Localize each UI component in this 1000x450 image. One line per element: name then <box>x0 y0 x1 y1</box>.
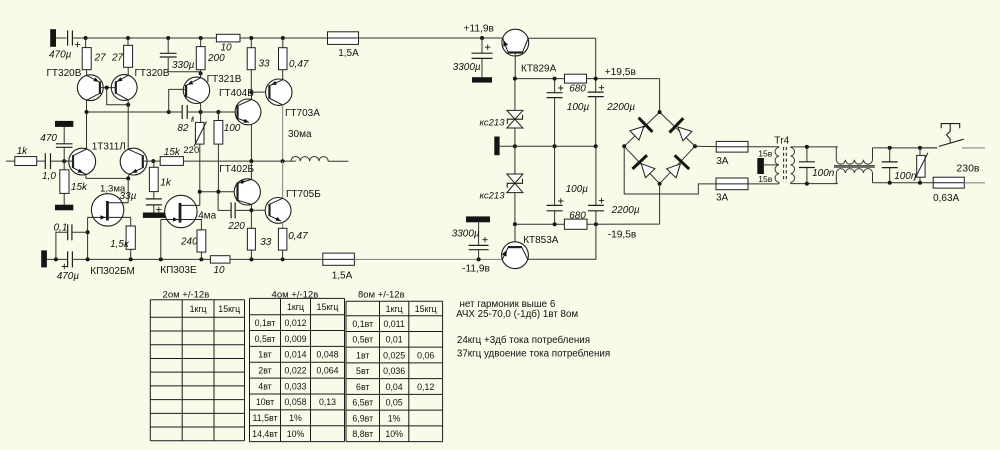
svg-text:680: 680 <box>569 210 586 221</box>
bridge diamond wires <box>624 112 695 184</box>
svg-text:+19,5в: +19,5в <box>605 67 636 78</box>
node KP303E gate <box>159 257 163 261</box>
svg-text:0,01: 0,01 <box>386 335 403 345</box>
svg-text:0,064: 0,064 <box>316 366 338 376</box>
svg-text:ГТ703А: ГТ703А <box>285 108 320 119</box>
capacitor 100u bottom <box>554 211 556 225</box>
node 2200u top / bridge <box>594 77 598 81</box>
fuse 3A bottom <box>716 178 748 190</box>
svg-text:0,05: 0,05 <box>386 398 403 408</box>
capacitor 100u top <box>554 79 556 93</box>
svg-text:0,025: 0,025 <box>383 350 405 360</box>
wire zener chain upper <box>514 79 516 111</box>
wire R1,5k to bottom rail <box>130 249 132 259</box>
svg-text:1,5к: 1,5к <box>110 239 130 250</box>
node feedback/base 1T311L2 <box>151 159 155 163</box>
wire GT703A collector down to output node <box>282 105 284 161</box>
wire bridge right to fuse 3A top <box>695 145 716 147</box>
svg-text:220: 220 <box>227 221 245 232</box>
node varistor top <box>918 146 922 150</box>
svg-text:24кгц +3дб тока потребления: 24кгц +3дб тока потребления <box>457 335 590 346</box>
wire KP303E source to R240 <box>200 220 202 230</box>
capacitor 3300u bottom <box>478 222 480 245</box>
resistor 27 (right) <box>127 38 129 45</box>
wire GT321V base to rail2 <box>169 89 186 112</box>
svg-text:0,06: 0,06 <box>417 350 434 360</box>
svg-text:0,13: 0,13 <box>319 397 336 407</box>
wire KT829A collector to +19,5v <box>528 37 596 39</box>
wire 470u to rail <box>72 258 322 260</box>
svg-text:1вт: 1вт <box>258 350 271 360</box>
svg-text:33: 33 <box>260 237 272 248</box>
svg-text:10: 10 <box>220 43 232 54</box>
diode bridge bottom-right <box>667 164 681 178</box>
node rail2 GT321V collector <box>199 110 203 114</box>
wire base-base GT320V <box>100 87 116 89</box>
wire to switch <box>920 147 937 149</box>
svg-text:3300µ: 3300µ <box>453 62 481 73</box>
resistor 33 bottom <box>247 228 255 250</box>
fuse 1,5A bottom <box>323 253 355 265</box>
node emitter GT321V <box>199 71 203 75</box>
svg-text:8,8вт: 8,8вт <box>352 429 373 439</box>
svg-text:1,5А: 1,5А <box>332 270 353 281</box>
wire R240 to rail <box>200 252 202 259</box>
wire R100 branch down to C220 <box>217 192 219 211</box>
node output / GT402B emitter line <box>249 159 253 163</box>
wire rail2 left segment <box>87 111 183 113</box>
svg-text:ГТ402Б: ГТ402Б <box>219 164 254 175</box>
wire 330u bottom to emitter node <box>168 57 200 73</box>
svg-text:0,47: 0,47 <box>289 59 309 70</box>
wire +19,5v to bridge top <box>659 79 661 113</box>
capacitor 470u input (electrolytic) <box>67 30 69 45</box>
mains plug symbol <box>941 124 960 143</box>
svg-text:2200µ: 2200µ <box>606 102 635 113</box>
svg-text:14,4вт: 14,4вт <box>252 429 278 439</box>
wire base line GT402B <box>200 191 238 193</box>
svg-text:330µ: 330µ <box>172 60 195 71</box>
resistor 100 <box>217 112 219 121</box>
resistor 27 (left) <box>85 38 87 48</box>
capacitor 82 in rail2 <box>181 105 183 119</box>
svg-text:15кгц: 15кгц <box>415 304 437 314</box>
wire to GT705B base <box>251 209 269 211</box>
node 100u caps <box>553 144 557 148</box>
svg-text:15k: 15k <box>164 147 181 158</box>
node 100n#2 bottom <box>888 181 892 185</box>
node R0,47 bottom <box>281 257 285 261</box>
wire node to GT703A base <box>251 91 269 93</box>
wire GT320V2 collector down to 1T311L2 collector <box>127 100 129 149</box>
svg-text:0,011: 0,011 <box>383 319 404 329</box>
node varistor bottom <box>918 181 922 185</box>
svg-text:10%: 10% <box>385 429 403 439</box>
svg-text:3А: 3А <box>716 156 729 167</box>
wire primary top to 100n <box>791 146 838 148</box>
node R33 bottom <box>249 257 253 261</box>
wire switch to 230v <box>962 147 985 149</box>
wire 15k to output node <box>183 160 296 162</box>
svg-text:+11,9в: +11,9в <box>464 24 494 35</box>
wire choke to 100n#2 top <box>873 147 938 149</box>
svg-text:100µ: 100µ <box>566 184 589 195</box>
node 100u top <box>553 77 557 81</box>
node bridge top <box>658 110 662 114</box>
svg-text:15кгц: 15кгц <box>218 304 240 314</box>
svg-text:10: 10 <box>214 265 226 276</box>
wire base node down to collector T2 <box>107 88 129 105</box>
svg-text:100µ: 100µ <box>567 102 590 113</box>
svg-text:-19,5в: -19,5в <box>608 229 637 240</box>
svg-text:1кгц: 1кгц <box>386 304 403 314</box>
node rail2 R100 <box>216 110 220 114</box>
resistor 15k left vertical <box>60 170 69 194</box>
svg-text:470: 470 <box>40 133 57 144</box>
wire choke to 100n#2 bottom <box>873 182 934 184</box>
node zener mid <box>513 144 517 148</box>
wire zener mid section <box>514 128 516 174</box>
svg-text:кс213: кс213 <box>480 190 506 201</box>
svg-text:1,0: 1,0 <box>42 171 56 182</box>
wire KP303E gate down <box>160 220 162 260</box>
svg-text:37кгц удвоение тока потреблени: 37кгц удвоение тока потребления <box>457 348 610 359</box>
wire R100 bottom <box>217 144 219 192</box>
svg-text:15кгц: 15кгц <box>317 302 339 312</box>
wire GT705B collector to R0,47b <box>282 223 284 229</box>
diode bridge top-left <box>630 126 644 140</box>
wire primary bottom to 100n <box>791 183 838 185</box>
node emitters 1T311L <box>126 176 130 180</box>
svg-text:6,5вт: 6,5вт <box>352 398 373 408</box>
svg-text:Тr4: Тr4 <box>774 136 789 147</box>
node 100n#1 bottom <box>805 182 809 186</box>
capacitor 0,1 <box>67 224 69 240</box>
fuse 1,5A top <box>328 32 359 45</box>
svg-text:0,1вт: 0,1вт <box>255 318 276 328</box>
wire C220 to GT402B collector node <box>235 209 251 211</box>
wire GT320V1 collector down to rail2 <box>86 100 88 112</box>
wire C470 to node <box>63 147 65 161</box>
resistor 0,47 top <box>282 38 284 48</box>
svg-text:15в: 15в <box>758 174 772 184</box>
node bases GT320V <box>105 86 109 90</box>
svg-text:1k: 1k <box>160 178 172 189</box>
node 100n#1 top <box>805 145 809 149</box>
node rail2 T1 collector <box>85 110 89 114</box>
wire fuse to 230v <box>964 182 985 184</box>
wire bar to C470 <box>63 127 65 144</box>
node top rail / R27b <box>126 36 130 40</box>
capacitor 100n #1 <box>806 147 808 162</box>
transformer Tr4 primary winding <box>791 147 795 182</box>
wire rail2 to GT404B base <box>218 111 237 113</box>
wire +11,9v top rail <box>72 37 216 39</box>
wire R15k to ground bar <box>63 193 65 204</box>
node thermistor bottom <box>198 190 202 194</box>
wire GT321V collector to rail2 <box>200 103 202 112</box>
svg-text:240: 240 <box>180 236 198 247</box>
wire KT853A collector to -19,5v <box>528 224 596 259</box>
wire -19,5v rail <box>515 223 565 225</box>
svg-text:220: 220 <box>183 145 199 156</box>
wire 1k to 33u <box>153 192 155 199</box>
node bridge left <box>622 144 626 148</box>
svg-text:0,04: 0,04 <box>386 382 403 392</box>
node 1k/33u branch top <box>153 161 155 167</box>
node 100u bottom <box>553 222 557 226</box>
wire rail R10 to fuse <box>240 37 328 39</box>
node +11,9v / 3300u top <box>480 36 484 40</box>
node top rail / C330u <box>166 36 170 40</box>
wire 1T311L1 emitter to common node <box>86 175 128 179</box>
svg-text:33: 33 <box>259 59 271 70</box>
svg-text:1вт: 1вт <box>356 350 369 360</box>
node 2200u bottom / KT853A <box>594 222 598 226</box>
resistor 1,5k <box>126 226 135 249</box>
wire R33 to node <box>250 70 252 92</box>
svg-text:0,5вт: 0,5вт <box>255 334 276 344</box>
varistor <box>919 148 921 156</box>
svg-text:0,5вт: 0,5вт <box>352 335 373 345</box>
svg-text:30ма: 30ма <box>288 129 312 140</box>
wire audio input <box>6 160 15 162</box>
node GT402B collector / C220 / GT705B base <box>249 208 253 212</box>
resistor 200 <box>200 38 202 47</box>
node bridge right <box>693 144 697 148</box>
node R240 <box>199 257 203 261</box>
node bridge bottom <box>658 182 662 186</box>
svg-text:кс213: кс213 <box>480 118 506 129</box>
svg-text:3А: 3А <box>716 192 729 203</box>
node top rail / R27a <box>84 36 88 40</box>
svg-text:ГТ705Б: ГТ705Б <box>286 189 321 200</box>
capacitor 1,0 input <box>44 153 46 169</box>
capacitor 470 to ground <box>56 143 73 145</box>
wire rail2 right segment <box>187 111 237 113</box>
wire R0,47b to rail <box>282 250 284 259</box>
node GT703A base <box>249 90 253 94</box>
svg-text:100: 100 <box>224 123 241 134</box>
svg-text:6вт: 6вт <box>356 382 369 392</box>
node collector join <box>126 103 130 107</box>
wire +19,5v rail <box>515 78 565 80</box>
wire C0,1 to gate line <box>72 231 88 233</box>
capacitor 2200u bottom <box>595 211 597 224</box>
node zener top <box>513 77 517 81</box>
wire KP302BM gate down <box>87 218 89 260</box>
svg-text:2200µ: 2200µ <box>611 205 640 216</box>
ground bar below R15k <box>55 205 73 211</box>
svg-text:0,63А: 0,63А <box>933 193 959 204</box>
node output / GT703-705 junction <box>281 159 285 163</box>
wire 1k to C1,0 <box>37 160 46 162</box>
ground bar above C470 <box>55 121 73 127</box>
diode bridge top-right <box>678 127 692 141</box>
resistor 680 bottom <box>564 219 587 229</box>
svg-text:0,12: 0,12 <box>417 382 434 392</box>
fuse 3A top <box>716 141 748 152</box>
svg-text:2вт: 2вт <box>258 366 271 376</box>
input terminal bar (top left) <box>50 29 56 47</box>
svg-text:АЧХ 25-70,0 (-1дб) 1вт 8ом: АЧХ 25-70,0 (-1дб) 1вт 8ом <box>456 309 578 320</box>
node R1,5k <box>129 257 133 261</box>
zener KS213 bottom (two-anode) <box>507 174 523 183</box>
resistor 33 top <box>250 38 252 48</box>
wire bridge left to fuse 3A bottom <box>624 146 716 194</box>
node gate / C0,1 <box>86 230 90 234</box>
node rail R0,47 <box>281 36 285 40</box>
node base T311-1 <box>62 159 66 163</box>
svg-text:4ом +/-12в: 4ом +/-12в <box>272 290 319 301</box>
resistor 240 <box>197 230 206 252</box>
wire bar to node <box>47 258 68 260</box>
center tap terminal bar <box>757 158 764 174</box>
wire R0,47 to GT703A emitter <box>282 70 284 80</box>
resistor 1k vertical <box>149 167 158 191</box>
diode bridge bottom-left <box>641 164 655 178</box>
svg-text:0,033: 0,033 <box>284 381 306 391</box>
wire fuse to KT829A emitter (+11,9v) <box>359 37 503 39</box>
wire 1T311L2 emitter to common node <box>127 174 130 178</box>
svg-text:470µ: 470µ <box>57 271 80 282</box>
svg-text:0,1вт: 0,1вт <box>352 319 373 329</box>
transistor 1T311L #2 <box>120 148 147 175</box>
terminal bar bottom left <box>41 250 47 267</box>
node 2200u caps <box>594 144 598 148</box>
capacitor 3300u top <box>481 38 483 53</box>
svg-text:КП303Е: КП303Е <box>160 265 197 276</box>
node top rail / R200 <box>199 36 203 40</box>
svg-text:100n: 100n <box>812 168 835 179</box>
wire GT404B collector up <box>251 92 253 99</box>
svg-text:-11,9в: -11,9в <box>462 264 490 275</box>
wire coil to open end <box>328 160 348 162</box>
svg-text:82: 82 <box>177 123 189 134</box>
svg-text:1Т311Л: 1Т311Л <box>92 141 126 152</box>
svg-text:1%: 1% <box>289 413 302 423</box>
wire fuse to KT853A (-11,9v) <box>354 258 502 260</box>
svg-text:10%: 10% <box>287 429 305 439</box>
choke bottom winding <box>835 173 837 184</box>
resistor 10 bottom <box>210 256 230 263</box>
wire zener chain lower <box>514 192 516 224</box>
svg-text:15в: 15в <box>758 148 772 158</box>
node C0,1 branch <box>54 257 58 261</box>
fuse 0,63A <box>933 177 964 188</box>
wire KP302BM source to R1,5k <box>130 217 132 226</box>
svg-text:0,012: 0,012 <box>284 318 306 328</box>
svg-text:0,47: 0,47 <box>288 231 308 242</box>
svg-text:4вт: 4вт <box>258 381 271 391</box>
svg-text:0,048: 0,048 <box>316 350 338 360</box>
wire 33u to ground bar <box>153 205 155 213</box>
wire C0,1 left leg <box>56 232 68 259</box>
svg-text:ГТ320В: ГТ320В <box>135 68 170 79</box>
svg-text:ГТ321В: ГТ321В <box>207 74 242 85</box>
svg-text:0,036: 0,036 <box>383 366 405 376</box>
svg-text:230в: 230в <box>956 162 980 174</box>
svg-text:27: 27 <box>94 53 107 64</box>
resistor 0,47 bottom <box>278 228 287 250</box>
ground bar below 33u <box>143 213 166 218</box>
wire C1,0 to base node <box>51 160 74 162</box>
wire mid ground rail <box>500 145 596 147</box>
inductor output coil <box>291 157 328 162</box>
node zener bottom <box>513 222 517 226</box>
wire input to C 470u <box>56 37 67 39</box>
wire 1T311L1 collector up to rail2 <box>86 112 88 149</box>
svg-text:0,022: 0,022 <box>284 366 306 376</box>
svg-text:8ом +/-12в: 8ом +/-12в <box>358 290 405 301</box>
wire GT402B collector down <box>250 204 252 228</box>
choke core lines <box>834 165 875 167</box>
capacitor 2200u top <box>588 91 604 93</box>
svg-text:1k: 1k <box>17 146 29 157</box>
node gate wire <box>86 257 90 261</box>
node R100 bottom <box>216 190 220 194</box>
capacitor 33u <box>146 198 162 200</box>
svg-text:200: 200 <box>207 53 225 64</box>
svg-text:10вт: 10вт <box>256 397 274 407</box>
choke top winding <box>835 147 837 160</box>
wire thermistor bottom <box>199 144 201 192</box>
svg-text:ГТ320В: ГТ320В <box>47 68 82 79</box>
svg-text:КТ853А: КТ853А <box>523 235 559 246</box>
svg-text:1кгц: 1кгц <box>287 302 304 312</box>
wire GT404B emitter down <box>250 124 252 161</box>
wire fuse to transformer secondary bottom <box>748 183 779 185</box>
resistor 1k input <box>15 157 37 166</box>
svg-text:6,9вт: 6,9вт <box>352 413 373 423</box>
ground bar above 3300u bottom <box>466 216 490 222</box>
wire bridge bottom to -19,5v rail <box>659 184 661 224</box>
svg-text:11,5вт: 11,5вт <box>253 413 278 423</box>
ground bar mid <box>494 137 499 156</box>
svg-text:33µ: 33µ <box>120 191 137 202</box>
svg-text:1%: 1% <box>388 413 401 423</box>
wire GT402B emitter up to output <box>250 161 252 179</box>
zener KS213 top (two-anode) <box>507 110 523 119</box>
thermistor 220 <box>200 112 202 122</box>
transformer core <box>784 147 787 182</box>
capacitor 220 <box>230 202 232 218</box>
svg-text:0,014: 0,014 <box>284 350 306 360</box>
svg-text:КП302БМ: КП302БМ <box>90 266 135 277</box>
resistor R10 top <box>216 34 240 42</box>
wire R33b to rail <box>250 250 252 259</box>
capacitor 100n #2 <box>889 148 891 162</box>
resistor 15k feedback <box>160 157 183 166</box>
wire 3300u to ground bar <box>481 58 483 77</box>
wire node to R15k left <box>63 161 65 170</box>
svg-text:1,5А: 1,5А <box>338 48 359 59</box>
wire emitters node to KP302BM drain <box>127 178 129 202</box>
resistor 680 top <box>565 74 587 83</box>
wire node to 15k <box>153 160 160 162</box>
svg-text:27: 27 <box>111 53 124 64</box>
wire KP303E drain up to base-wire node <box>199 192 201 206</box>
center tap wire <box>764 164 779 166</box>
capacitor 330u <box>167 38 169 53</box>
node rail R33 <box>249 36 253 40</box>
svg-text:0,058: 0,058 <box>284 397 306 407</box>
svg-text:470µ: 470µ <box>49 50 72 61</box>
capacitor 470u bottom (electrolytic) <box>67 251 69 267</box>
svg-text:680: 680 <box>569 84 586 95</box>
svg-text:ГТ404Б: ГТ404Б <box>219 88 254 99</box>
node rail2 GT321V base wire <box>167 110 171 114</box>
